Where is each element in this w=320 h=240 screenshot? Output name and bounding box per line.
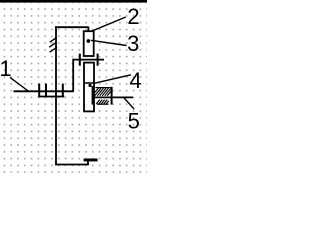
bearing tick C: [62, 84, 64, 98]
support bar (anchor pad): [84, 159, 98, 162]
gear tick left: [92, 86, 94, 105]
frame bottom horizontal line: [55, 164, 88, 166]
frame hatching (fixed support): [49, 37, 57, 52]
pin dot 4: [88, 84, 91, 87]
svg-text:2: 2: [127, 4, 139, 29]
svg-text:1: 1: [0, 56, 12, 81]
leader line 5: [124, 98, 134, 110]
bearing tick B: [45, 84, 47, 98]
svg-text:4: 4: [129, 68, 141, 93]
worm wheel lower hatched block: [96, 100, 109, 105]
gear tick right: [111, 87, 113, 105]
pin dot 3: [87, 39, 91, 43]
axle tick right: [97, 54, 99, 66]
leader line 2: [93, 17, 126, 31]
bearing tick A: [38, 84, 40, 98]
leader line 4: [93, 75, 131, 84]
frame vertical line: [55, 26, 57, 165]
output shaft 5: [92, 96, 133, 98]
motor shaft stub: [87, 27, 89, 32]
cylinder 2/3 (upper block): [84, 31, 94, 56]
worm wheel upper hatched block: [95, 88, 111, 96]
cross axle line: [73, 59, 104, 61]
leader line 3: [91, 40, 127, 45]
axle tick left: [79, 54, 81, 66]
frame top horizontal line: [55, 26, 89, 28]
bearing bracket line: [38, 96, 64, 98]
svg-text:3: 3: [127, 31, 139, 56]
input shaft 1: [14, 90, 74, 92]
support step stub: [87, 161, 89, 165]
leader line 1: [10, 77, 28, 91]
top black border bar: [0, 0, 147, 3]
link vertical (crank arm): [72, 59, 74, 92]
slider divider line: [84, 82, 94, 84]
lower block 4 (slider): [84, 63, 94, 112]
svg-text:5: 5: [128, 109, 140, 134]
